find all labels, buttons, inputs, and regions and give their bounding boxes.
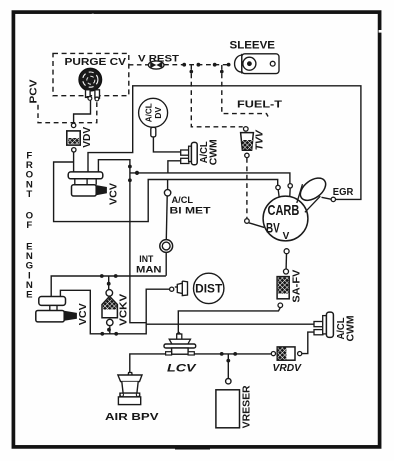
SA-FV valve (277, 269, 289, 308)
svg-text:BI MET: BI MET (170, 205, 211, 215)
wire stub VCKV bottom (109, 326, 111, 334)
svg-text:CWM: CWM (345, 316, 356, 342)
carb V port (284, 249, 289, 254)
wire stub VCKV top (108, 276, 110, 290)
svg-text:MAN: MAN (136, 263, 162, 274)
VRDV valve (271, 347, 302, 360)
svg-text:VRDV: VRDV (273, 362, 302, 374)
wire VRDV right to lower CWM bottom prong (302, 332, 314, 354)
svg-text:VDV: VDV (82, 126, 93, 147)
svg-text:V: V (283, 231, 290, 242)
svg-text:EGR: EGR (333, 187, 354, 198)
wire A: manifold tee to carb right port (130, 173, 290, 184)
VCV valve upper (68, 172, 107, 196)
wire purge left leg to VDV (74, 100, 91, 123)
wire EGR loop: EGR port up over to VCV (88, 86, 361, 200)
junction dot wire A (135, 171, 139, 175)
A/CL CWM upper (181, 142, 198, 164)
carb top ports (278, 188, 290, 197)
wire A/CL BI MET circle down to INT MAN port (165, 196, 168, 239)
svg-text:DIST: DIST (195, 283, 222, 295)
wire stub BI MET (167, 180, 169, 190)
LCV valve (164, 332, 196, 355)
purge CV dashed box (53, 53, 129, 95)
wire dashed fuel-T drop 2 (222, 65, 268, 117)
wire VRESER drop (227, 354, 229, 379)
wire A/CL DV stem to upper CWM top prong (153, 137, 180, 152)
TVV valve (241, 127, 254, 158)
V REST valve (148, 61, 164, 69)
sleeve (227, 54, 279, 74)
A/CL DV valve (139, 98, 168, 137)
svg-text:VCV: VCV (108, 183, 120, 205)
wire SA-FV bottom to LCV stem (178, 308, 280, 333)
svg-text:VRESER: VRESER (242, 385, 253, 429)
wire AIR BPV riser and bottom main line (130, 354, 271, 373)
svg-text:FUEL-T: FUEL-T (237, 100, 282, 111)
wire to lower right CWM top prong (146, 323, 314, 325)
VDV valve (67, 123, 80, 152)
AIR BPV valve (118, 373, 142, 405)
wire upper CWM bottom prong down to wire A (168, 161, 181, 173)
svg-text:VCV: VCV (77, 303, 89, 325)
junction dots long vertical (128, 165, 132, 169)
junction dots manifold y276 (100, 274, 104, 278)
VCKV valve (102, 290, 117, 326)
svg-text:VCKV: VCKV (119, 293, 130, 325)
junction dots sleeve line (182, 63, 186, 67)
svg-text:FRONTOFENGINE: FRONTOFENGINE (26, 151, 34, 301)
svg-text:SLEEVE: SLEEVE (230, 40, 276, 52)
svg-text:DV: DV (153, 107, 163, 119)
svg-text:PURGE CV: PURGE CV (65, 57, 127, 68)
A/CL CWM lower (314, 312, 333, 337)
wire dashed purge box to V REST (129, 64, 149, 66)
INT MAN port double circle (160, 240, 173, 253)
wire INT MAN port down to manifold line (165, 253, 167, 276)
A/CL BI MET port circle (164, 190, 170, 196)
svg-text:A/CL: A/CL (172, 195, 194, 205)
svg-text:SA-FV: SA-FV (291, 269, 302, 302)
wire VCV stub up over and down long vertical (98, 160, 146, 323)
wire dashed V REST to sleeve (164, 64, 227, 66)
DIST (170, 273, 224, 303)
junction dots lower web y334 (100, 332, 104, 336)
EGR horn (296, 174, 335, 213)
junction dots bottom line (220, 352, 224, 356)
TVV carb port circle (245, 219, 250, 224)
svg-text:AIR BPV: AIR BPV (105, 412, 159, 423)
svg-text:CARB: CARB (268, 203, 300, 219)
wire dashed fuel-T drop 1 to TVV (191, 65, 242, 127)
svg-text:V REST: V REST (138, 53, 179, 64)
wire dashed TVV down to carb (246, 158, 248, 218)
wire PCV dashed: PCV up to purge right leg (38, 101, 97, 123)
wire carb V port to SA-FV top (285, 254, 287, 269)
svg-text:TVV: TVV (254, 129, 265, 150)
wire manifold y276: lower VCV to INT MAN drop (51, 276, 166, 297)
svg-text:LCV: LCV (167, 363, 198, 375)
VCV valve lower (36, 297, 77, 322)
wire DIST to lower web (60, 289, 169, 334)
wire TVV circle to carb edge (249, 223, 264, 228)
VRESER tank (216, 379, 240, 428)
wire VCV left bracket to wire-B and carb left port (54, 162, 278, 222)
svg-text:CWM: CWM (208, 139, 219, 165)
purge CV valve (79, 68, 102, 101)
svg-text:BV: BV (266, 220, 280, 236)
carb BV circle (263, 196, 308, 241)
wire VDV to VCV bar (73, 152, 75, 172)
svg-text:PCV: PCV (28, 80, 40, 104)
